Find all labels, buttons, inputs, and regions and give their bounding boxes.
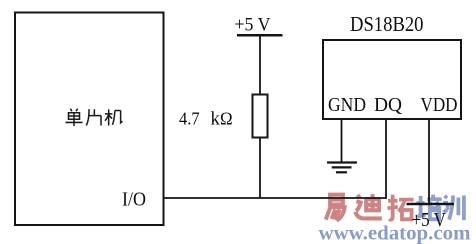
svg-text:Ω: Ω: [220, 109, 233, 129]
svg-text:I/O: I/O: [122, 188, 146, 210]
svg-text:DQ: DQ: [374, 95, 402, 116]
watermark logo 易迪拓培训: [326, 194, 414, 221]
svg-text:www.edatop.com: www.edatop.com: [319, 224, 471, 244]
ground symbol: [327, 163, 357, 173]
label 单片机: [65, 109, 122, 126]
svg-text:+5 V: +5 V: [412, 210, 447, 231]
wire +5V bar to resistor top: [259, 35, 261, 95]
wire DQ pin to I/O net: [385, 119, 387, 199]
svg-text:k: k: [211, 110, 221, 130]
DS18B20 box U1: [323, 40, 461, 119]
wire I/O net: MCU to DQ: [164, 197, 387, 199]
+5V supply symbol bottom: bar: [407, 203, 455, 206]
svg-text:DS18B20: DS18B20: [350, 12, 424, 36]
resistor 4.7k body: [253, 95, 268, 138]
svg-text:VDD: VDD: [421, 95, 458, 116]
microcontroller box 单片机: [15, 13, 164, 226]
wire resistor bottom to I/O net junction: [259, 138, 261, 199]
svg-text:4.7: 4.7: [179, 109, 200, 129]
wire GND pin to ground: [341, 119, 343, 163]
svg-text:GND: GND: [328, 95, 366, 116]
wire VDD pin to +5V: [428, 119, 430, 204]
svg-text:+5 V: +5 V: [235, 15, 271, 36]
+5V supply symbol top: bar: [237, 34, 283, 37]
